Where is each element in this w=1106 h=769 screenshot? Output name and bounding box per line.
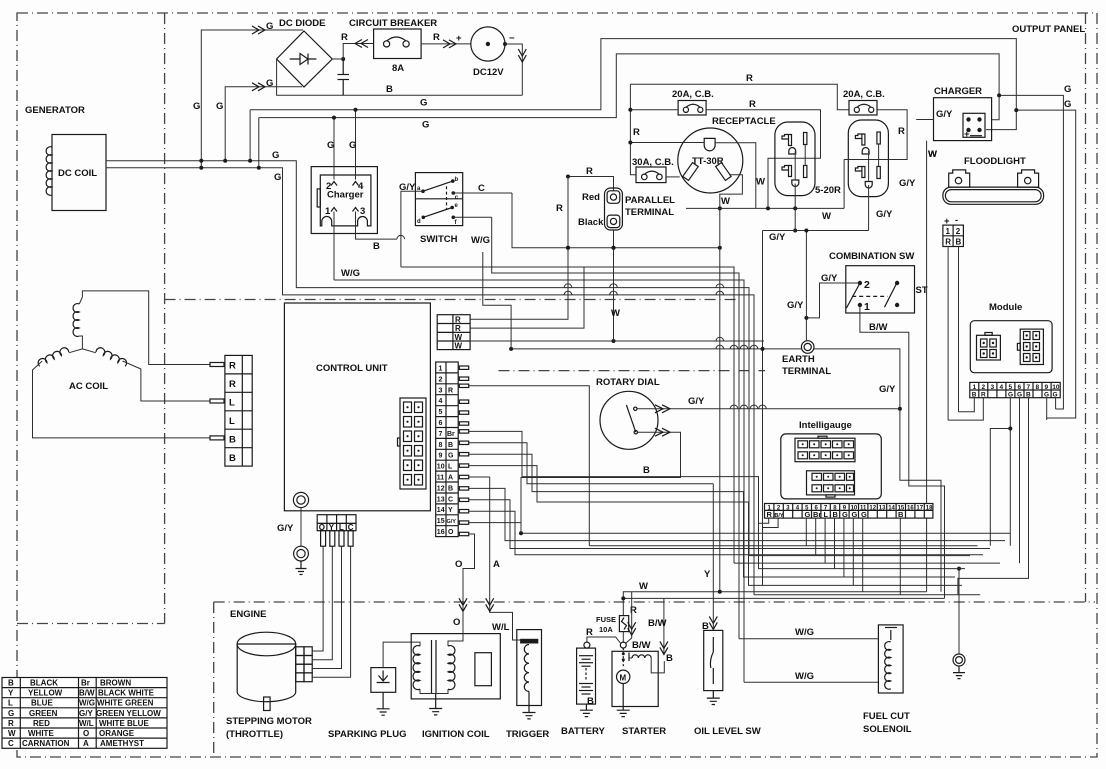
TT-30R circle: [678, 128, 743, 193]
svg-text:RECEPTACLE: RECEPTACLE: [712, 116, 776, 127]
svg-text:WHITE: WHITE: [28, 729, 54, 738]
G bus lower: [259, 54, 999, 120]
charger connector outer box: [311, 167, 377, 234]
vertical from CU top to earth bus: [483, 252, 511, 349]
output panel divider lower: [499, 370, 766, 372]
battery plates: [579, 656, 593, 694]
TRIGGER box: [517, 630, 542, 706]
dial pointer: [626, 405, 635, 432]
parallel terminal body: [605, 188, 623, 230]
junction dots dc wires: [199, 159, 203, 163]
svg-text:G: G: [272, 150, 279, 161]
wire R to parallel red: [568, 177, 614, 191]
node circle starter: [620, 642, 626, 648]
svg-text:B: B: [229, 453, 236, 464]
top connector 2x5: [795, 436, 855, 462]
svg-text:G/Y: G/Y: [821, 273, 838, 284]
down arrows on return wire: [518, 49, 526, 62]
C bus under parallel terminal: [512, 193, 721, 248]
red cell: [607, 191, 620, 204]
contact 2: [858, 281, 862, 285]
charger connector inner: [320, 175, 371, 226]
svg-text:OUTPUT PANEL: OUTPUT PANEL: [1012, 24, 1085, 35]
svg-text:R: R: [455, 315, 461, 324]
svg-text:Y: Y: [329, 523, 335, 532]
module box: [970, 321, 1052, 373]
5-20R 2 top T slot: [855, 134, 865, 145]
svg-text:7: 7: [1027, 384, 1031, 391]
svg-text:B: B: [1026, 392, 1031, 399]
svg-text:BLACK WHITE: BLACK WHITE: [98, 689, 155, 698]
EARTH TERMINAL circle: [801, 341, 814, 354]
wire charger pin2 up: [333, 118, 335, 180]
hop of B wire over G/Y: [397, 235, 405, 239]
spark gap symbol: [377, 671, 390, 683]
wire CB2 right to 5-20R2: [844, 110, 907, 160]
wire 5-20R2 ground down GY: [868, 185, 870, 231]
svg-text:L: L: [448, 464, 453, 471]
pin stub L: [210, 399, 224, 403]
svg-text:B: B: [898, 510, 904, 519]
5-20R 2 bottom ground: [865, 182, 872, 189]
arrow top GY: [655, 405, 670, 413]
wire node up to breaker: [343, 44, 373, 60]
svg-text:L: L: [229, 416, 235, 427]
svg-text:CHARGER: CHARGER: [934, 86, 982, 97]
svg-text:FUEL CUT: FUEL CUT: [863, 711, 910, 722]
B bottom bus: [521, 532, 1010, 534]
svg-text:13: 13: [437, 496, 445, 503]
wire battery to node: [587, 637, 620, 643]
capacitor: [338, 59, 350, 95]
5-20R 1 top right slot: [804, 133, 807, 145]
svg-text:R: R: [749, 99, 756, 110]
ignition internal wires: [420, 689, 448, 693]
W/G bus from switch f: [492, 217, 739, 638]
G/Y vertical to earth: [805, 231, 807, 341]
wire contact1 down B/W: [860, 305, 945, 598]
pin 2 stub: [331, 182, 337, 186]
svg-text:R: R: [8, 719, 14, 728]
R top bus: [630, 84, 849, 110]
svg-text:B: B: [956, 238, 962, 247]
svg-text:18: 18: [926, 506, 933, 512]
TT-30R left slot: [683, 163, 698, 181]
svg-text:R: R: [556, 203, 563, 214]
contact st top: [895, 281, 899, 285]
AC coil left winding: [36, 340, 69, 374]
20A CB 2 box: [849, 101, 877, 116]
svg-text:C: C: [448, 496, 453, 503]
AC coil top winding: [73, 304, 79, 337]
svg-text:PARALLEL: PARALLEL: [625, 195, 675, 206]
R wire from RRWW row2: [470, 267, 584, 328]
svg-text:COMBINATION SW: COMBINATION SW: [829, 251, 914, 262]
svg-text:G/Y: G/Y: [936, 109, 953, 120]
G/Y bus from switch a: [401, 267, 734, 563]
ignition resistor: [475, 653, 492, 686]
pin 1 stub: [331, 208, 337, 212]
svg-text:G: G: [1053, 392, 1058, 399]
svg-text:B: B: [8, 679, 14, 688]
generator section divider: [164, 13, 166, 624]
RRWW strip: [437, 315, 470, 350]
bottom connector 2x4: [807, 471, 855, 497]
svg-text:WHITE BLUE: WHITE BLUE: [99, 719, 149, 728]
svg-text:Module: Module: [989, 302, 1022, 313]
starter M ground: [617, 684, 630, 717]
svg-text:W: W: [639, 581, 648, 592]
AC coil left lead: [69, 349, 83, 353]
svg-text:EARTH: EARTH: [782, 354, 815, 365]
G/Y ground bus: [763, 230, 869, 232]
svg-text:W: W: [611, 308, 620, 319]
svg-text:10: 10: [1052, 384, 1060, 391]
18-cell terminal strip: [765, 504, 933, 519]
output panel right dash border: [1085, 13, 1087, 602]
STARTER box: [612, 651, 658, 706]
CU ground ring: [293, 492, 308, 507]
wire 5-20R1 ground down GY: [794, 184, 796, 231]
5-20R 2 center ground: [862, 148, 869, 155]
intelligauge cell wires down: [759, 518, 769, 523]
module terminal strip: [970, 382, 1060, 397]
svg-text:16: 16: [437, 529, 445, 536]
svg-text:W/L: W/L: [79, 719, 94, 728]
svg-text:W/G: W/G: [471, 235, 490, 246]
svg-text:R: R: [448, 387, 453, 394]
CU pin3 R wire: [469, 386, 590, 546]
svg-text:10: 10: [437, 464, 445, 471]
svg-text:DC COIL: DC COIL: [58, 168, 97, 179]
svg-text:W/G: W/G: [795, 671, 814, 682]
battery ground: [580, 704, 593, 717]
svg-text:G: G: [216, 101, 223, 112]
ground symbol CU: [296, 561, 307, 575]
AC coil Y winding: [33, 291, 211, 438]
OYLC connector: [317, 515, 356, 547]
wire switch c to C: [453, 192, 512, 194]
svg-text:Y: Y: [8, 689, 14, 698]
dot on circle right: [503, 42, 507, 46]
svg-text:9: 9: [439, 453, 443, 460]
16-pin stubs: [459, 366, 468, 536]
svg-text:8: 8: [439, 442, 443, 449]
stepping motor body: [237, 632, 296, 710]
svg-text:W: W: [822, 211, 831, 222]
W/L wire: [490, 477, 520, 640]
svg-text:GREEN: GREEN: [29, 709, 58, 718]
svg-text:3: 3: [360, 206, 365, 217]
svg-text:G: G: [852, 510, 858, 519]
intelligauge box: [781, 434, 882, 499]
W/G bus from charger pin1 to fuel: [334, 280, 744, 682]
module right connector: [1017, 329, 1043, 364]
svg-text:2: 2: [956, 227, 961, 236]
DC diode bridge diamond: [277, 31, 333, 87]
svg-text:12: 12: [869, 506, 876, 512]
staircase upper band from pins 7-10: [469, 431, 965, 568]
svg-text:R: R: [229, 379, 236, 390]
lower band extra lines: [749, 555, 970, 557]
trigger winding: [524, 645, 529, 692]
parallel black wire down to W bus: [613, 248, 615, 341]
arrow right: [443, 40, 456, 48]
switch mid divider: [415, 198, 462, 200]
svg-text:BROWN: BROWN: [100, 679, 131, 688]
starter coil right wire: [651, 658, 664, 673]
wire TT30R ground slot right: [715, 143, 756, 209]
cell2 R to floodlight R: [948, 398, 983, 420]
O wire into ignition: [463, 534, 475, 634]
pin stub R: [210, 363, 224, 367]
breaker contacts: [384, 41, 390, 47]
svg-text:Black: Black: [578, 217, 604, 228]
wire tap up to G top bus: [249, 110, 251, 161]
svg-text:17: 17: [916, 506, 923, 512]
W wire to battery area: [623, 592, 926, 616]
svg-text:G: G: [861, 510, 867, 519]
earth ring 2: [294, 546, 309, 561]
wire DC12V to B: [505, 44, 522, 95]
earth ring bottom right: [953, 654, 965, 666]
svg-text:G: G: [1008, 392, 1013, 399]
cell1 B to floodlight B: [959, 398, 975, 412]
DC12V circle: [471, 27, 505, 61]
svg-text:O: O: [319, 523, 325, 532]
pin 4 stub: [353, 182, 359, 186]
wire rotary GY right: [637, 408, 900, 410]
5-20R 2 bottom right slot: [877, 167, 880, 179]
30A CB box: [636, 167, 666, 183]
svg-text:W: W: [928, 149, 937, 160]
svg-text:Y: Y: [448, 507, 453, 514]
svg-text:5: 5: [439, 409, 443, 416]
svg-text:ST: ST: [916, 285, 928, 296]
R left vertical: [630, 84, 636, 175]
switch dashed guide: [446, 186, 448, 210]
svg-text:R: R: [746, 73, 753, 84]
svg-text:R: R: [586, 627, 593, 638]
svg-text:G: G: [805, 510, 811, 519]
svg-text:B: B: [643, 465, 650, 476]
wire contact2 left to GY vertical: [806, 283, 860, 318]
module left connector: [977, 333, 1001, 361]
generator section bottom: [17, 623, 165, 625]
CU internal connector 2x6: [398, 398, 427, 489]
wire rotary B: [521, 432, 681, 533]
svg-text:14: 14: [437, 507, 445, 514]
svg-text:B: B: [833, 510, 839, 519]
svg-text:G: G: [1064, 84, 1071, 95]
pin stub B: [210, 436, 224, 440]
svg-text:BLACK: BLACK: [30, 679, 58, 688]
starter plunger dashes: [622, 652, 625, 655]
svg-text:3: 3: [439, 387, 443, 394]
svg-text:b: b: [455, 177, 459, 183]
svg-text:14: 14: [888, 506, 895, 512]
stepping motor connector grid: [296, 647, 313, 682]
svg-text:R: R: [633, 127, 640, 138]
trigger bar: [520, 639, 538, 644]
svg-text:G: G: [448, 453, 454, 460]
svg-text:1: 1: [439, 366, 443, 373]
5-20R 2 top right slot: [877, 132, 880, 144]
sparking plug top wire: [383, 642, 420, 668]
svg-text:G/Y: G/Y: [769, 232, 786, 243]
blade left: [846, 283, 860, 309]
svg-text:R: R: [433, 32, 440, 43]
svg-text:2: 2: [982, 384, 986, 391]
wire switch f right: [453, 216, 491, 218]
svg-text:R: R: [229, 361, 236, 372]
AC terminal strip: [210, 355, 252, 466]
cell6 G down: [1019, 398, 1021, 563]
svg-text:G: G: [1017, 392, 1022, 399]
wire pin11 A down: [469, 476, 490, 478]
svg-text:L: L: [229, 398, 235, 409]
svg-text:AMETHYST: AMETHYST: [100, 739, 144, 748]
wire earth right and down: [814, 349, 941, 592]
wire breaker to DC12V: [421, 43, 471, 45]
wire charger left in: [916, 119, 933, 121]
5-20R 2 internal pin lines: [868, 151, 870, 182]
G branch wires right: [999, 95, 1063, 409]
svg-text:CONTROL UNIT: CONTROL UNIT: [316, 363, 388, 374]
svg-text:A: A: [83, 739, 89, 748]
trigger ground: [523, 692, 536, 719]
floodlight body: [943, 170, 1044, 204]
engine box left: [213, 602, 215, 755]
cell5 G down: [1009, 398, 1011, 546]
Y wire to oil sw: [709, 616, 717, 629]
charger left tab: [317, 189, 320, 207]
cell5 branch left down: [990, 429, 1010, 546]
G bus upper: [250, 39, 1016, 130]
svg-text:W: W: [721, 196, 730, 207]
svg-text:G: G: [1064, 99, 1071, 110]
W/G wires to solenoid: [739, 638, 878, 640]
svg-text:O: O: [448, 529, 454, 536]
wire charger W down: [926, 141, 928, 592]
SPARKING PLUG box: [371, 668, 396, 693]
svg-text:Br: Br: [447, 431, 455, 438]
svg-text:SWITCH: SWITCH: [420, 234, 458, 245]
svg-text:G: G: [266, 78, 273, 89]
engine box top: [214, 601, 1095, 603]
ignition left winding: [413, 646, 420, 690]
battery plus circle: [584, 642, 590, 648]
svg-text:W/L: W/L: [492, 622, 510, 633]
svg-text:30A, C.B.: 30A, C.B.: [632, 157, 674, 168]
svg-text:L: L: [824, 510, 829, 519]
svg-text:TERMINAL: TERMINAL: [625, 207, 674, 218]
svg-text:B: B: [229, 435, 236, 446]
svg-text:11: 11: [437, 475, 445, 482]
wire tap up to G 2nd bus: [258, 118, 260, 168]
svg-text:1: 1: [325, 206, 331, 217]
svg-text:B: B: [448, 442, 453, 449]
svg-text:C: C: [348, 523, 354, 532]
Y wire from band: [712, 484, 714, 631]
svg-text:BATTERY: BATTERY: [561, 726, 605, 737]
svg-text:B/W: B/W: [648, 618, 667, 629]
oil ground: [707, 691, 720, 705]
svg-text:R: R: [455, 324, 461, 333]
charger 4-pin connector: [963, 113, 985, 137]
B/W wire from bus: [623, 597, 944, 599]
wire tap up to diode bottom: [225, 87, 302, 161]
starter solenoid coil: [632, 655, 651, 658]
starter M motor: [617, 670, 630, 683]
svg-text:IGNITION COIL: IGNITION COIL: [422, 729, 490, 740]
svg-text:WHITE GREEN: WHITE GREEN: [97, 699, 154, 708]
svg-text:TERMINAL: TERMINAL: [782, 366, 831, 377]
AC coil right lead: [82, 349, 96, 353]
wire dc coil out 1 (G bus to right-bottom): [106, 161, 749, 556]
FUEL CUT SOLENOID box: [878, 625, 903, 693]
svg-text:B/W: B/W: [632, 640, 651, 651]
svg-text:W/G: W/G: [341, 268, 360, 279]
wire R to ground slot: [630, 142, 704, 144]
svg-text:6: 6: [1018, 384, 1022, 391]
5-20R 1 top T slot: [782, 135, 792, 146]
svg-text:8A: 8A: [392, 63, 404, 74]
svg-text:B: B: [386, 84, 393, 95]
arrow on diode bottom wire: [252, 83, 265, 91]
svg-text:Br: Br: [813, 510, 821, 519]
svg-text:R: R: [341, 32, 348, 43]
node at diamond right: [341, 57, 345, 61]
16-pin connector strip: [436, 362, 459, 537]
svg-text:B: B: [587, 696, 594, 707]
wire diamond right to node: [332, 58, 343, 60]
OIL LEVEL SW box: [704, 630, 723, 690]
svg-text:G/Y: G/Y: [447, 519, 457, 525]
svg-text:Br: Br: [81, 679, 90, 688]
svg-text:+: +: [964, 129, 970, 140]
contact st bottom: [895, 303, 899, 307]
svg-text:GENERATOR: GENERATOR: [25, 105, 85, 116]
svg-text:B/W: B/W: [869, 322, 888, 333]
ignition right winding: [448, 646, 455, 690]
R wire from RRWW row1: [470, 248, 568, 319]
svg-text:G: G: [349, 140, 356, 151]
AC coil right winding: [95, 340, 128, 374]
W wire from TT30R down: [719, 208, 721, 591]
svg-text:ORANGE: ORANGE: [99, 729, 135, 738]
wire 30A CB to TT-30R: [666, 176, 680, 178]
circuit breaker 8A box: [374, 29, 422, 59]
FUSE box: [619, 616, 628, 632]
svg-text:1: 1: [864, 301, 870, 313]
svg-text:12: 12: [437, 485, 445, 492]
svg-text:GREEN YELLOW: GREEN YELLOW: [96, 709, 161, 718]
wire charger pin4 up: [355, 110, 357, 180]
svg-text:Red: Red: [582, 192, 600, 203]
charger box: [934, 98, 992, 141]
svg-text:10A: 10A: [599, 625, 613, 634]
wire charger pin3 to B and switch d: [356, 212, 398, 240]
svg-text:SOLENOIL: SOLENOIL: [863, 724, 912, 735]
svg-text:ENGINE: ENGINE: [230, 609, 266, 620]
svg-text:3: 3: [991, 384, 995, 391]
svg-text:A: A: [448, 475, 453, 482]
wire fuse to node: [622, 632, 624, 643]
svg-text:C: C: [478, 183, 485, 194]
rotary dial circle: [600, 391, 658, 449]
svg-text:G/Y: G/Y: [899, 178, 916, 189]
